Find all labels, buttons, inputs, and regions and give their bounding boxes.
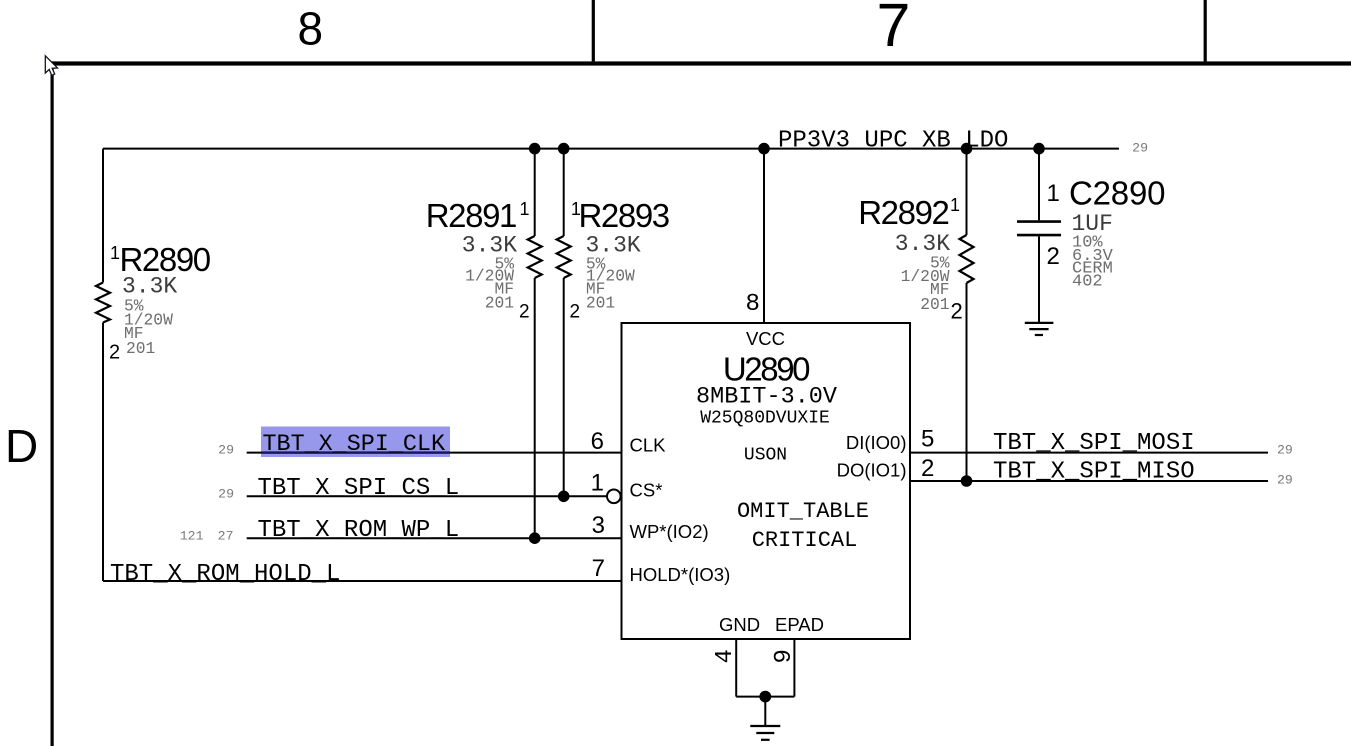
wire R2892 vertical (rail to DO line) <box>966 149 968 235</box>
svg-text:5: 5 <box>921 426 934 453</box>
ground below U2890 <box>750 726 780 740</box>
svg-text:6: 6 <box>591 428 604 455</box>
svg-text:29: 29 <box>218 487 234 502</box>
capacitor C2890 plates <box>1017 220 1061 223</box>
svg-text:TBT_X_SPI_MISO: TBT_X_SPI_MISO <box>993 459 1195 486</box>
svg-text:121: 121 <box>180 529 204 544</box>
svg-text:VCC: VCC <box>746 328 785 349</box>
svg-text:27: 27 <box>218 529 234 544</box>
svg-text:R2890: R2890 <box>120 241 211 278</box>
svg-text:USON: USON <box>744 446 787 466</box>
wire C2890 stub from rail <box>1038 149 1040 221</box>
wire MISO net <box>910 480 1268 482</box>
svg-text:CLK: CLK <box>630 435 667 456</box>
wire MOSI net <box>910 452 1268 454</box>
svg-text:29: 29 <box>218 443 234 458</box>
svg-text:WP*(IO2): WP*(IO2) <box>630 521 709 542</box>
svg-text:DO(IO1): DO(IO1) <box>837 460 907 481</box>
capacitor C2890 labels <box>1047 175 1166 292</box>
wire EPAD pin stub <box>793 639 795 697</box>
svg-text:7: 7 <box>592 555 605 582</box>
svg-text:TBT_X_ROM_WP_L: TBT_X_ROM_WP_L <box>258 517 460 544</box>
wire ground stem <box>764 697 766 726</box>
resistor R2892 zigzag <box>960 235 974 283</box>
resistor R2893 zigzag <box>557 236 571 278</box>
svg-text:2: 2 <box>951 299 963 324</box>
svg-text:4: 4 <box>712 649 739 663</box>
inversion bubble on CS* pin <box>607 490 621 504</box>
svg-text:GND: GND <box>719 614 760 635</box>
wire CLK net <box>247 452 622 454</box>
mouse cursor <box>45 56 57 76</box>
junction dot MISO/R2892 <box>961 475 973 487</box>
svg-text:201: 201 <box>586 294 615 313</box>
svg-text:8: 8 <box>298 3 324 55</box>
svg-text:2: 2 <box>570 302 581 323</box>
svg-text:R2892: R2892 <box>858 194 948 231</box>
wire R2893 vertical (rail to CS line) <box>563 149 565 236</box>
resistor R2891 zigzag <box>528 236 542 278</box>
svg-text:PP3V3_UPC_XB_LDO: PP3V3_UPC_XB_LDO <box>778 128 1008 155</box>
svg-text:R2893: R2893 <box>579 197 669 234</box>
svg-text:R2891: R2891 <box>426 197 516 234</box>
highlight on TBT_X_SPI_CLK <box>261 427 450 458</box>
wire left vertical (rail to HOLD line) with resistor R2890 body gap <box>102 149 104 283</box>
wire segment tinted inside highlight <box>261 451 450 453</box>
svg-text:8: 8 <box>746 291 760 318</box>
svg-text:201: 201 <box>485 294 514 313</box>
junction dot GND/EPAD <box>759 691 771 703</box>
svg-text:9: 9 <box>771 649 798 663</box>
svg-text:W25Q80DVUXIE: W25Q80DVUXIE <box>700 409 830 429</box>
svg-text:1: 1 <box>520 199 530 219</box>
resistor R2893 labels <box>570 197 669 323</box>
svg-text:TBT_X_SPI_MOSI: TBT_X_SPI_MOSI <box>993 430 1195 457</box>
sheet border left line <box>51 61 54 746</box>
svg-text:C2890: C2890 <box>1069 175 1165 212</box>
svg-text:29: 29 <box>1277 473 1293 488</box>
wire C2890 bottom stub <box>1038 236 1040 322</box>
svg-text:7: 7 <box>877 0 911 59</box>
junction dots on rail <box>529 143 541 155</box>
ground below C2890 <box>1025 323 1054 335</box>
net PP3V3_UPC_XB_LDO power rail wire <box>103 148 1119 150</box>
zone divider between 8 and 7 <box>592 0 595 61</box>
svg-text:201: 201 <box>126 339 155 358</box>
wire CS net <box>247 495 607 497</box>
svg-text:2: 2 <box>1047 243 1060 270</box>
svg-text:1: 1 <box>110 243 120 263</box>
svg-text:201: 201 <box>920 295 949 314</box>
svg-text:29: 29 <box>1277 443 1293 458</box>
svg-text:29: 29 <box>1132 141 1148 156</box>
junction dot CS/R2893 <box>558 491 570 503</box>
svg-text:TBT_X_SPI_CS_L: TBT_X_SPI_CS_L <box>258 475 460 502</box>
svg-text:CS*: CS* <box>630 479 663 500</box>
svg-text:1: 1 <box>1047 180 1060 207</box>
svg-text:2: 2 <box>109 342 120 364</box>
zone divider right of 7 <box>1204 0 1207 61</box>
svg-text:OMIT_TABLE: OMIT_TABLE <box>737 499 869 524</box>
svg-text:8MBIT-3.0V: 8MBIT-3.0V <box>696 384 837 411</box>
resistor R2891 labels <box>426 197 530 323</box>
IC U2890 body <box>622 323 911 639</box>
svg-text:402: 402 <box>1072 273 1103 292</box>
svg-text:3: 3 <box>592 512 605 539</box>
resistor R2890 zigzag <box>96 283 110 323</box>
svg-text:DI(IO0): DI(IO0) <box>846 432 907 453</box>
sheet border top line <box>51 61 1351 65</box>
wire HOLD net <box>103 580 622 582</box>
wire joining GND and EPAD <box>736 696 794 698</box>
svg-text:2: 2 <box>519 302 530 323</box>
svg-text:2: 2 <box>921 455 934 482</box>
wire R2891 vertical (rail to WP line) <box>534 149 536 236</box>
resistor R2890 labels <box>109 241 211 364</box>
svg-text:HOLD*(IO3): HOLD*(IO3) <box>630 564 731 585</box>
resistor R2892 labels <box>858 194 963 324</box>
wire GND pin stub <box>735 639 737 697</box>
svg-text:EPAD: EPAD <box>775 614 824 635</box>
svg-text:1: 1 <box>591 470 604 497</box>
IC U2890 inner labels <box>630 328 907 635</box>
junction dot WP/R2891 <box>529 532 541 544</box>
svg-text:TBT_X_ROM_HOLD_L: TBT_X_ROM_HOLD_L <box>110 561 340 588</box>
svg-text:U2890: U2890 <box>723 351 810 388</box>
svg-text:1: 1 <box>950 195 960 215</box>
svg-text:D: D <box>5 420 38 472</box>
svg-text:TBT_X_SPI_CLK: TBT_X_SPI_CLK <box>263 432 446 458</box>
wire WP net <box>247 537 622 539</box>
svg-text:CRITICAL: CRITICAL <box>752 528 858 553</box>
wire VCC stub (rail to U2890 VCC pin) <box>763 149 765 323</box>
